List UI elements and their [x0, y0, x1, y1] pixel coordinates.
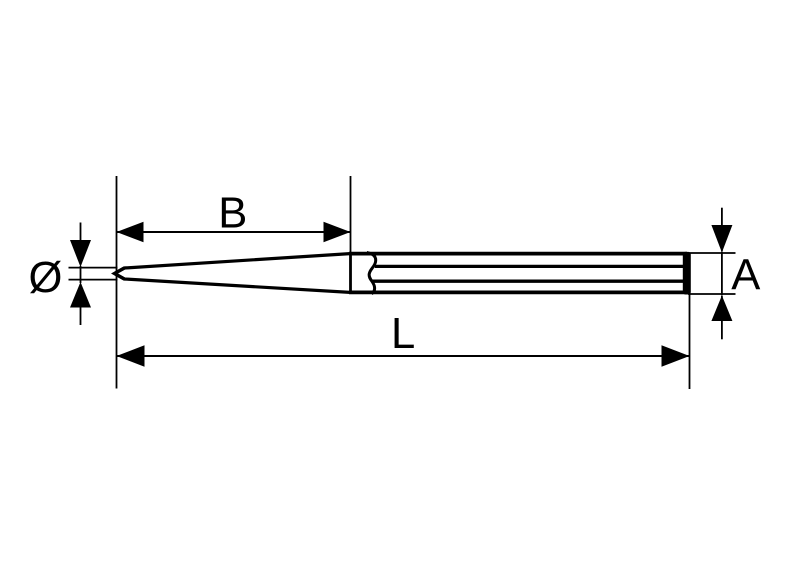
- svg-text:Ø: Ø: [29, 254, 63, 302]
- svg-text:B: B: [218, 190, 247, 238]
- svg-text:L: L: [391, 310, 415, 358]
- svg-text:A: A: [731, 252, 760, 300]
